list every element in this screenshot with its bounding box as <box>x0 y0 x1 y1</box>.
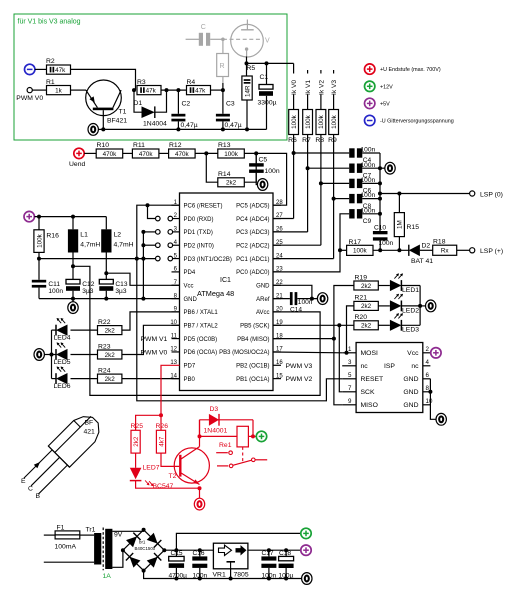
svg-text:R26: R26 <box>156 423 169 430</box>
capacitor C8 100n <box>349 194 354 203</box>
svg-text:br1: br1 <box>139 540 146 545</box>
svg-text:5: 5 <box>348 372 352 379</box>
svg-text:LED6: LED6 <box>54 383 71 390</box>
wire to R25 <box>136 415 161 430</box>
svg-text:4: 4 <box>426 359 430 366</box>
svg-text:ISP: ISP <box>384 363 395 370</box>
connector +12V out (green) <box>301 528 311 538</box>
svg-text:MOSI: MOSI <box>361 350 378 357</box>
ground bus of stack <box>379 153 381 231</box>
svg-text:GND: GND <box>403 402 418 409</box>
ground at T2 (red) <box>199 488 201 498</box>
svg-text:L1: L1 <box>80 232 88 239</box>
capacitor C6 100n <box>349 179 354 188</box>
wire PD7 (red) <box>161 365 180 415</box>
node Ik V1 stub <box>307 70 309 110</box>
svg-text:100n: 100n <box>48 288 63 295</box>
svg-text:7: 7 <box>348 385 352 392</box>
legend +U Endstufe (max. 700V) <box>365 64 375 74</box>
svg-text:T1: T1 <box>119 109 127 116</box>
svg-text:R11: R11 <box>133 142 145 149</box>
wire secondary top <box>112 530 143 532</box>
wire DC+ rail <box>164 549 213 551</box>
transistor T2 BC547 (red) <box>174 448 209 483</box>
LED LED4 <box>71 329 98 331</box>
wire <box>123 152 133 154</box>
terminal PWM V0 <box>27 88 32 93</box>
svg-text:PD5 (OC0B): PD5 (OC0B) <box>184 337 218 343</box>
wire ISP GND bus <box>430 379 436 420</box>
svg-text:PC5 (ADC5): PC5 (ADC5) <box>236 204 269 210</box>
bridge rectifier B1 B40C1500 <box>123 530 144 550</box>
wire pin19 to LED3/SCK <box>273 324 354 326</box>
ground at stack <box>380 167 385 169</box>
svg-text:AVcc: AVcc <box>256 310 270 316</box>
wire jumper pin2 <box>148 205 156 218</box>
svg-text:R16: R16 <box>46 233 59 240</box>
capacitor C7 100n <box>349 164 354 173</box>
svg-text:C17: C17 <box>262 550 274 557</box>
svg-text:47k: 47k <box>55 67 66 74</box>
svg-text:3300µ: 3300µ <box>258 100 277 107</box>
wire C9 branch to R17/ADC0 <box>273 214 349 272</box>
svg-text:PWM V2: PWM V2 <box>286 376 313 383</box>
wire pin18 <box>273 338 334 340</box>
resistor R26 4k7 (red) <box>160 415 162 430</box>
svg-text:LED3: LED3 <box>402 327 419 334</box>
resistor R8 100k <box>316 110 326 135</box>
svg-text:100n: 100n <box>361 177 376 184</box>
svg-text:9: 9 <box>348 398 352 405</box>
legend -U Gitterversorgungsspannung <box>365 115 375 125</box>
svg-text:PC2 (ADC2): PC2 (ADC2) <box>236 244 269 250</box>
LED LED6 <box>71 378 98 380</box>
tube V (grayed) <box>231 24 264 57</box>
capacitor C9 100n <box>349 209 354 218</box>
label Ik V2 <box>317 74 325 95</box>
wire pin10 to R23 <box>122 325 180 354</box>
svg-text:PB1 (OC1A): PB1 (OC1A) <box>236 377 269 383</box>
svg-text:D2: D2 <box>422 242 431 249</box>
svg-text:3µ3: 3µ3 <box>82 288 93 295</box>
svg-text:1N4001: 1N4001 <box>204 428 228 435</box>
svg-text:1A: 1A <box>103 573 112 580</box>
legend +5V <box>365 98 375 108</box>
svg-text:100k: 100k <box>331 114 338 129</box>
wire jumpers pins3-5 <box>143 231 155 233</box>
LED LED1 <box>378 285 390 287</box>
svg-text:R15: R15 <box>407 224 420 231</box>
wire secondary bottom <box>112 550 123 567</box>
capacitor C12 3u3 <box>72 266 74 279</box>
wire GND rail (pin8 row) <box>39 298 180 300</box>
resistor R9 100k <box>329 110 339 135</box>
svg-text:SCK: SCK <box>361 389 375 396</box>
svg-text:PB7 / XTAL2: PB7 / XTAL2 <box>184 324 219 330</box>
svg-text:R6: R6 <box>288 137 297 144</box>
svg-text:E: E <box>21 478 26 485</box>
LED LED3 <box>378 324 390 326</box>
ISP pin 7 SCK <box>342 391 356 393</box>
wire SCK to ISP (line C) <box>339 325 342 392</box>
svg-text:R7: R7 <box>302 137 311 144</box>
svg-text:BAT 41: BAT 41 <box>411 258 433 265</box>
svg-text:R24: R24 <box>98 367 111 374</box>
svg-text:Ik V1: Ik V1 <box>305 80 312 95</box>
wire grid node gray <box>210 38 223 40</box>
svg-text:R9: R9 <box>328 137 337 144</box>
wire pin22 GND <box>273 285 312 298</box>
legend +12V <box>365 81 375 91</box>
svg-text:+5V: +5V <box>380 101 390 107</box>
svg-text:T2: T2 <box>169 473 177 480</box>
svg-text:Ik V0: Ik V0 <box>291 80 298 95</box>
node Ik V3 stub <box>333 70 335 110</box>
green frame "für V1 bis V3 analog" <box>14 14 287 140</box>
LED LED7 (red) <box>135 453 137 468</box>
bridge diode L-T <box>126 533 141 548</box>
svg-text:C3: C3 <box>226 101 235 108</box>
svg-text:4,7mH: 4,7mH <box>114 241 134 248</box>
wire R9 to ADC1 <box>333 135 335 259</box>
svg-text:LSP (0): LSP (0) <box>480 191 503 198</box>
svg-text:Tr1: Tr1 <box>86 527 96 534</box>
svg-text:2: 2 <box>426 346 430 353</box>
svg-text:PB4 (MISO): PB4 (MISO) <box>237 337 269 343</box>
wire R6 to ADC4 <box>293 135 295 219</box>
svg-text:für V1 bis V3 analog: für V1 bis V3 analog <box>18 19 81 26</box>
wire <box>32 89 46 91</box>
connector +5V at ISP Vcc <box>431 348 441 358</box>
ground PSU <box>302 573 312 585</box>
bridge diode B-L <box>126 553 141 568</box>
svg-text:C: C <box>28 486 33 493</box>
wire R1 to T1 emitter <box>71 89 87 91</box>
svg-text:IC1: IC1 <box>220 277 231 284</box>
svg-text:B40C1500: B40C1500 <box>135 546 156 551</box>
svg-text:0,47µ: 0,47µ <box>181 122 198 129</box>
ground rail of tube stage <box>103 128 266 130</box>
wire node <box>165 88 169 92</box>
svg-text:GND: GND <box>403 376 418 383</box>
label Ik V1 <box>304 74 312 95</box>
wire <box>159 152 169 154</box>
wire Vcc from L2/C13 <box>104 271 108 275</box>
wire mains bottom <box>44 561 94 563</box>
svg-text:C16: C16 <box>193 550 205 557</box>
svg-text:6: 6 <box>426 372 430 379</box>
svg-text:100n: 100n <box>361 162 376 169</box>
wire C8 branch <box>334 198 350 200</box>
relay contact 1 <box>216 452 228 454</box>
regulator VR1 7805 <box>213 543 248 569</box>
svg-text:LED1: LED1 <box>402 287 419 294</box>
svg-text:R22: R22 <box>98 319 111 326</box>
wire <box>457 249 470 251</box>
wire LED cathode bus right <box>419 286 421 326</box>
wire C6 branch <box>321 182 349 184</box>
svg-text:470k: 470k <box>139 151 154 158</box>
svg-text:1: 1 <box>348 346 352 353</box>
relay Re1 coil (red) <box>237 426 248 447</box>
svg-text:2k2: 2k2 <box>105 327 116 334</box>
svg-text:PD7: PD7 <box>184 364 196 370</box>
svg-text:100n: 100n <box>265 168 280 175</box>
svg-text:GND: GND <box>184 297 198 303</box>
cathode node wire <box>246 57 248 64</box>
svg-text:R21: R21 <box>355 295 368 302</box>
svg-text:Vcc: Vcc <box>184 284 194 290</box>
svg-text:4k7: 4k7 <box>158 436 165 447</box>
label Ik V0 <box>290 74 298 95</box>
svg-text:7805: 7805 <box>234 571 249 578</box>
LED LED2 <box>378 305 390 307</box>
svg-text:100n: 100n <box>298 299 313 306</box>
relay actuator dashed <box>242 447 244 462</box>
ISP pin 10 GND <box>423 404 431 406</box>
svg-text:PD1 (TXD): PD1 (TXD) <box>184 230 213 236</box>
svg-text:Ik V3: Ik V3 <box>331 80 338 95</box>
svg-text:R5: R5 <box>247 65 256 72</box>
wire LED7 to emitter <box>136 481 200 489</box>
svg-text:C2: C2 <box>182 101 191 108</box>
wire <box>420 249 433 251</box>
capacitor C13 3u3 <box>105 273 107 279</box>
svg-text:PD2 (INT0): PD2 (INT0) <box>184 244 214 250</box>
svg-text:LED5: LED5 <box>54 359 71 366</box>
svg-text:PC6 (/RESET): PC6 (/RESET) <box>184 204 223 210</box>
svg-text:LED2: LED2 <box>402 307 419 314</box>
ground at T1 <box>88 123 98 135</box>
inductor L2 4,7mH <box>105 217 107 230</box>
capacitor C (coupling, grayed) <box>186 38 199 40</box>
svg-text:BF: BF <box>85 420 94 427</box>
svg-text:PC0 (ADC0): PC0 (ADC0) <box>236 270 269 276</box>
resistor R6 100k <box>289 110 299 135</box>
diode D1 1N4004 <box>132 88 136 92</box>
svg-text:470k: 470k <box>103 151 118 158</box>
ISP pin 6 GND <box>423 378 431 380</box>
svg-text:LED4: LED4 <box>54 334 71 341</box>
capacitor C4 100n <box>349 148 354 157</box>
svg-text:D1: D1 <box>134 100 143 107</box>
svg-text:ARef: ARef <box>256 297 270 303</box>
ISP pin 3 nc <box>342 365 356 367</box>
svg-text:1k: 1k <box>55 87 63 94</box>
svg-text:100n: 100n <box>361 192 376 199</box>
wire C7 branch <box>308 167 350 169</box>
connector ISP header <box>356 343 423 413</box>
label Ik V3 <box>330 74 338 95</box>
svg-text:GND: GND <box>403 389 418 396</box>
svg-text:100k: 100k <box>36 233 43 248</box>
svg-text:C: C <box>201 24 206 31</box>
svg-text:Re1: Re1 <box>219 442 232 449</box>
fuse F1 100mA <box>44 534 55 536</box>
capacitor C11 100n <box>38 259 40 280</box>
wire R2 to collector node <box>71 69 136 90</box>
wire <box>35 68 47 70</box>
transistor package BF421 <box>19 410 106 497</box>
connector +12V (green) <box>256 431 266 441</box>
ISP pin 2 Vcc <box>423 352 431 354</box>
svg-text:PB6 / XTAL1: PB6 / XTAL1 <box>184 310 219 316</box>
resistor R (grid, grayed) <box>222 39 224 53</box>
svg-text:Ik V2: Ik V2 <box>319 80 326 95</box>
resistor R16 100k <box>38 217 40 230</box>
svg-text:RESET: RESET <box>361 376 384 383</box>
svg-text:L2: L2 <box>114 232 122 239</box>
svg-text:2k2: 2k2 <box>105 376 116 383</box>
terminal LSP (+) <box>470 248 475 253</box>
node Ik V2 stub <box>320 70 322 110</box>
wire LED2 to MOSI (line B) <box>347 306 354 353</box>
svg-text:2k2: 2k2 <box>133 436 140 447</box>
wire pin9 to R22 <box>122 312 180 330</box>
svg-text:2k2: 2k2 <box>105 352 116 359</box>
ground at ARef <box>317 293 327 305</box>
svg-text:PWM V1: PWM V1 <box>141 336 168 343</box>
svg-text:100k: 100k <box>291 114 298 129</box>
svg-text:2k2: 2k2 <box>361 323 372 330</box>
svg-text:R25: R25 <box>131 423 144 430</box>
bridge diode B-R <box>147 553 162 568</box>
ground at LED5 <box>34 349 44 361</box>
wire LED cathode bus <box>51 330 53 379</box>
svg-text:100n: 100n <box>361 207 376 214</box>
svg-text:0,47µ: 0,47µ <box>225 122 242 129</box>
op IC1 ATmega 48 <box>180 193 274 391</box>
wire LED1 to PB4/MISO (line A) <box>334 286 354 405</box>
svg-text:1N4004: 1N4004 <box>143 121 167 128</box>
wire R7 to ADC3 <box>307 135 309 232</box>
wire R24 to pin14 <box>122 378 180 380</box>
wire C4 branch <box>294 152 350 154</box>
svg-text:Vcc: Vcc <box>407 350 419 357</box>
svg-text:+U Endstufe (max. 700V): +U Endstufe (max. 700V) <box>380 67 441 73</box>
jumper pin 2 <box>156 216 161 221</box>
wire relay row <box>199 420 201 437</box>
inductor L1 4,7mH <box>72 217 74 230</box>
capacitor C10 100n <box>373 231 388 234</box>
svg-text:C14: C14 <box>290 307 302 314</box>
connector +5V (purple) <box>24 211 34 221</box>
capacitor C2 0,47u <box>177 90 179 114</box>
jumper pin 4 <box>156 243 161 248</box>
wire +5V rail out <box>248 549 301 551</box>
resistor R14 2k2 <box>206 153 218 182</box>
svg-text:421: 421 <box>84 429 96 436</box>
wire <box>84 152 96 154</box>
svg-text:100k: 100k <box>305 114 312 129</box>
svg-text:R13: R13 <box>218 142 231 149</box>
svg-text:2k2: 2k2 <box>361 283 372 290</box>
wire LSP(0) line <box>380 193 470 195</box>
ISP pin 9 MISO <box>342 404 356 406</box>
wire R8 to ADC2 <box>320 135 322 246</box>
svg-text:LSP (+): LSP (+) <box>480 248 503 255</box>
ISP pin 8 GND <box>423 391 431 393</box>
diode D2 BAT 41 <box>408 245 410 256</box>
capacitor C3 0,47u <box>222 90 224 114</box>
svg-text:R19: R19 <box>355 274 368 281</box>
svg-text:2k2: 2k2 <box>361 303 372 310</box>
svg-text:C12: C12 <box>82 281 94 288</box>
svg-text:Rx: Rx <box>441 248 450 255</box>
wire R13 to pin28 <box>244 153 286 205</box>
wire collector up <box>199 420 201 447</box>
svg-text:ATMega 48: ATMega 48 <box>197 289 234 298</box>
wire +5V rail (pin5 row) <box>39 258 156 260</box>
svg-text:1M: 1M <box>397 220 404 229</box>
svg-text:R: R <box>220 63 225 70</box>
svg-text:+12V: +12V <box>380 84 393 90</box>
connector +5V out (purple) <box>301 545 311 555</box>
node Ik V0 wire <box>293 63 295 109</box>
svg-text:C13: C13 <box>115 281 127 288</box>
ground at LED2 <box>420 305 425 307</box>
svg-text:PC3 (ADC3): PC3 (ADC3) <box>236 230 269 236</box>
ground at ISP <box>436 413 446 425</box>
svg-text:10: 10 <box>426 398 433 405</box>
svg-text:-U Gitterversorgungsspannung: -U Gitterversorgungsspannung <box>380 119 454 125</box>
bridge diode T-R <box>147 533 162 548</box>
svg-text:nc: nc <box>361 363 369 370</box>
svg-text:C10: C10 <box>374 225 386 232</box>
svg-text:PC1 (ADC1): PC1 (ADC1) <box>236 257 269 263</box>
connector Uend (red plus) <box>74 148 84 158</box>
jumper pin 5 <box>156 256 161 261</box>
wire <box>195 152 218 154</box>
svg-text:R12: R12 <box>169 142 182 149</box>
svg-text:C5: C5 <box>259 157 268 164</box>
svg-text:PWM V0: PWM V0 <box>141 349 168 356</box>
ground below C12 <box>72 299 74 302</box>
svg-text:VR1: VR1 <box>213 571 226 578</box>
wire R17-D2 <box>373 249 409 251</box>
svg-text:LED7: LED7 <box>143 465 160 472</box>
capacitor C5 100n <box>255 153 257 163</box>
svg-text:PB0: PB0 <box>184 377 196 383</box>
svg-text:47k: 47k <box>195 87 206 94</box>
svg-text:B: B <box>36 493 41 500</box>
wire +12V tap <box>176 533 300 550</box>
svg-text:MISO: MISO <box>361 402 378 409</box>
svg-text:nc: nc <box>411 363 419 370</box>
svg-text:100k: 100k <box>318 114 325 129</box>
capacitor C14 100n <box>273 298 290 300</box>
svg-text:PD0 (RXD): PD0 (RXD) <box>184 217 214 223</box>
svg-text:PB5 (SCK): PB5 (SCK) <box>240 324 269 330</box>
svg-text:BF421: BF421 <box>107 118 127 125</box>
diode D3 1N4001 (red) <box>200 419 254 421</box>
svg-text:V: V <box>265 38 270 45</box>
svg-text:BC547: BC547 <box>153 483 174 490</box>
svg-text:3: 3 <box>348 359 352 366</box>
svg-text:3µ3: 3µ3 <box>115 288 126 295</box>
svg-text:100k: 100k <box>353 248 368 255</box>
svg-text:C11: C11 <box>48 281 60 288</box>
ISP pin 5 RESET <box>342 378 356 380</box>
svg-text:R2: R2 <box>46 58 55 65</box>
svg-text:PWM V0: PWM V0 <box>16 95 43 102</box>
svg-text:14R: 14R <box>244 85 251 97</box>
wire coil to +12V <box>248 435 256 437</box>
relay contact 2 <box>217 465 228 467</box>
wire R4 to grid-R node <box>211 89 223 91</box>
svg-text:100k: 100k <box>224 151 239 158</box>
terminal LSP (0) <box>470 191 475 196</box>
